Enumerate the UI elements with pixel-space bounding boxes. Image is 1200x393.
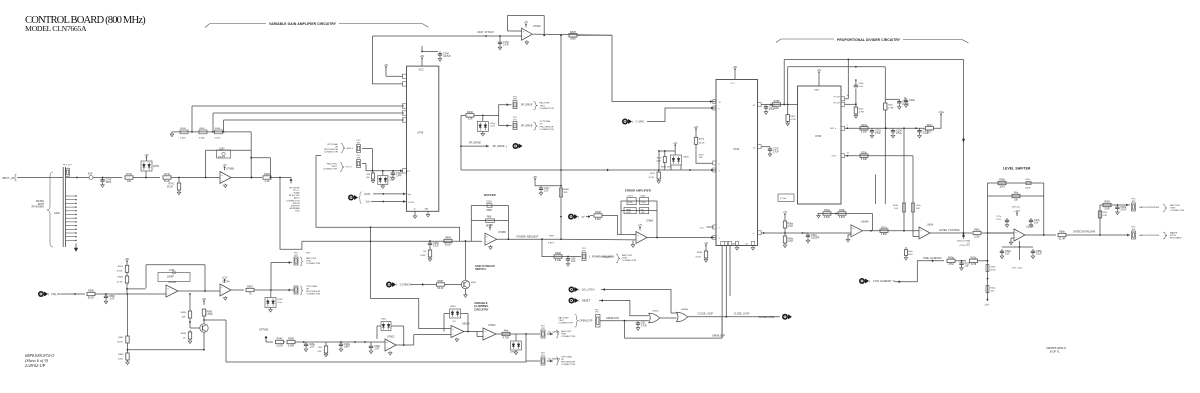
- svg-text:R66: R66: [487, 217, 492, 219]
- svg-text:SW6: SW6: [471, 282, 477, 284]
- svg-text:10UF: 10UF: [1036, 253, 1042, 256]
- svg-text:}: }: [506, 145, 507, 149]
- svg-text:2.80K: 2.80K: [420, 255, 426, 257]
- svg-text:R678: R678: [570, 31, 576, 34]
- svg-text:L70a: L70a: [938, 111, 944, 114]
- svg-text:R09d: R09d: [999, 179, 1005, 182]
- svg-text:R066: R066: [288, 338, 294, 341]
- svg-text:QT03: QT03: [277, 299, 283, 301]
- svg-text:10K: 10K: [564, 192, 568, 194]
- svg-text:ERROR AMPLIFIER: ERROR AMPLIFIER: [625, 189, 651, 193]
- svg-text:+8V: +8V: [733, 66, 738, 69]
- svg-text:R686: R686: [88, 290, 94, 293]
- svg-text:61.4R: 61.4R: [1059, 237, 1066, 240]
- svg-text:GATECONTROLRW: GATECONTROLRW: [1139, 234, 1160, 237]
- svg-text:R677: R677: [650, 173, 656, 175]
- svg-text:R69h: R69h: [991, 267, 997, 269]
- svg-text:+8V: +8V: [533, 176, 538, 179]
- svg-text:E1P: E1P: [88, 174, 93, 176]
- svg-text:}: }: [774, 315, 775, 319]
- svg-text:+4V: +4V: [673, 142, 678, 145]
- svg-text:R698: R698: [181, 312, 187, 314]
- svg-text:R096: R096: [555, 252, 561, 255]
- svg-text:+8V: +8V: [202, 298, 207, 301]
- svg-text:6.81K: 6.81K: [595, 218, 602, 221]
- svg-text:CLOSE_LOOP: CLOSE_LOOP: [734, 313, 750, 315]
- svg-text:1UF: 1UF: [1034, 222, 1039, 225]
- svg-text:27UF: 27UF: [896, 132, 902, 135]
- svg-text:{: {: [579, 299, 580, 303]
- svg-text:{: {: [396, 283, 397, 287]
- svg-text:T-CLR: T-CLR: [408, 202, 415, 204]
- svg-text:(SN+14): (SN+14): [1012, 206, 1020, 208]
- svg-text:10PF: 10PF: [628, 202, 634, 204]
- svg-text:{: {: [48, 292, 49, 296]
- svg-text:5.30K: 5.30K: [861, 131, 868, 134]
- svg-text:OUT a: OUT a: [830, 128, 837, 130]
- svg-text:QP40: QP40: [510, 351, 516, 353]
- svg-text:6.81K: 6.81K: [839, 216, 846, 219]
- svg-text:SD_LATMA: SD_LATMA: [548, 330, 560, 333]
- svg-text:G400: G400: [54, 213, 60, 215]
- svg-text:POWER_REQUEST: POWER_REQUEST: [517, 236, 539, 239]
- svg-text:-2.8V: -2.8V: [984, 305, 990, 307]
- svg-text:3.3UF: 3.3UF: [641, 202, 647, 204]
- svg-text:U708B: U708B: [226, 168, 234, 171]
- svg-text:27UF: 27UF: [996, 219, 1002, 221]
- svg-text:RF_DRIVE: RF_DRIVE: [493, 145, 505, 148]
- svg-text:CONNECTOR: CONNECTOR: [1170, 210, 1184, 212]
- svg-text:R09a: R09a: [824, 209, 830, 212]
- svg-text:R684: R684: [118, 277, 124, 279]
- svg-text:1043: 1043: [999, 185, 1005, 188]
- svg-text:R69e: R69e: [1059, 231, 1065, 234]
- svg-text:CONNECTOR: CONNECTOR: [540, 108, 554, 110]
- svg-text:R687: R687: [438, 280, 444, 283]
- svg-text:.1UF: .1UF: [374, 348, 380, 351]
- svg-text:.1UF: .1UF: [309, 346, 315, 349]
- svg-text:CIRCUITRY: CIRCUITRY: [474, 307, 489, 311]
- svg-text:VT: VT: [582, 216, 586, 219]
- svg-text:+15V (OPT): +15V (OPT): [959, 245, 970, 247]
- svg-text:10K: 10K: [1014, 198, 1019, 201]
- svg-text:RF_DRIVE: RF_DRIVE: [521, 126, 533, 128]
- svg-text:2/28/02-UP: 2/28/02-UP: [25, 363, 46, 368]
- svg-text:4732: 4732: [948, 263, 954, 266]
- svg-text:V38G: V38G: [814, 90, 820, 92]
- svg-text:27UF: 27UF: [1120, 209, 1126, 212]
- svg-text:+7V: +7V: [452, 321, 456, 323]
- svg-text:5.62K: 5.62K: [215, 137, 221, 139]
- svg-text:+8V: +8V: [125, 258, 130, 261]
- svg-text:4.7M: 4.7M: [787, 225, 792, 228]
- svg-text:MODEL CLN7665A: MODEL CLN7665A: [25, 24, 87, 33]
- svg-text:OPTION.: OPTION.: [259, 329, 269, 332]
- svg-text:+7V: +7V: [638, 224, 643, 227]
- svg-text:C20a: C20a: [1025, 179, 1031, 181]
- svg-text:GATECONTROLRW: GATECONTROLRW: [1139, 206, 1160, 209]
- svg-text:10R: 10R: [699, 157, 703, 159]
- svg-text:10K: 10K: [127, 180, 132, 183]
- svg-text:CLK: CLK: [366, 202, 371, 204]
- svg-text:RF BOARD: RF BOARD: [32, 206, 45, 209]
- svg-text:GATECONTROLRW: GATECONTROLRW: [1073, 231, 1096, 234]
- svg-text:602R: 602R: [991, 270, 996, 272]
- svg-text:PROPORTIONAL DIVIDER CIRCUITRY: PROPORTIONAL DIVIDER CIRCUITRY: [837, 38, 901, 42]
- svg-text:4762: 4762: [118, 359, 124, 361]
- svg-text:GND: GND: [732, 244, 737, 246]
- svg-text:.1UF: .1UF: [109, 298, 115, 301]
- svg-text:BUFFER: BUFFER: [484, 193, 497, 197]
- svg-text:CONNECTOR: CONNECTOR: [622, 260, 636, 262]
- svg-text:R69g: R69g: [948, 256, 954, 259]
- svg-text:56.2K: 56.2K: [164, 180, 171, 183]
- svg-text:+8V: +8V: [694, 126, 699, 129]
- svg-text:B OF 7L: B OF 7L: [1050, 349, 1060, 353]
- svg-text:R62a: R62a: [971, 256, 977, 259]
- svg-text:33PF: 33PF: [344, 346, 350, 349]
- svg-text:CONNECTOR: CONNECTOR: [559, 323, 573, 325]
- svg-text:CONNECTOR: CONNECTOR: [324, 151, 338, 153]
- svg-text:U808A: U808A: [681, 308, 688, 311]
- svg-text:R04a: R04a: [893, 205, 899, 207]
- svg-text:R695: R695: [118, 354, 124, 356]
- svg-text:5.04K: 5.04K: [555, 259, 562, 262]
- svg-text:{: {: [632, 120, 633, 124]
- svg-text:10K: 10K: [991, 291, 995, 293]
- svg-text:6.81K: 6.81K: [117, 271, 123, 273]
- svg-text:FACTORY: FACTORY: [540, 102, 551, 105]
- svg-text:27UF: 27UF: [769, 108, 775, 111]
- svg-text:1d: 1d: [847, 153, 849, 155]
- svg-text:LT68A: LT68A: [646, 220, 654, 223]
- svg-text:56.2K: 56.2K: [437, 287, 444, 290]
- svg-text:40K: 40K: [182, 317, 186, 319]
- svg-text:+10a: +10a: [277, 302, 283, 304]
- svg-text:+10V: +10V: [487, 224, 493, 227]
- svg-text:R4a: R4a: [504, 330, 509, 333]
- svg-text:56.2K: 56.2K: [167, 186, 173, 188]
- svg-text:R166: R166: [215, 128, 221, 130]
- svg-text:R09b: R09b: [839, 209, 845, 212]
- svg-text:STATION: STATION: [291, 204, 300, 207]
- svg-text:{: {: [578, 215, 579, 219]
- svg-text:56PF: 56PF: [487, 210, 493, 212]
- svg-text:OUT: OUT: [832, 156, 837, 158]
- svg-text:U064A: U064A: [861, 221, 869, 224]
- svg-text:.1UF: .1UF: [859, 86, 864, 88]
- svg-text:U703: U703: [815, 134, 822, 138]
- svg-text:56.1K: 56.1K: [649, 177, 655, 179]
- svg-text:33PF: 33PF: [106, 181, 112, 184]
- svg-text:SD_LATCH: SD_LATCH: [582, 289, 595, 292]
- svg-text:FAST_ATTACK: FAST_ATTACK: [478, 31, 495, 34]
- svg-text:POT 2: POT 2: [346, 167, 353, 169]
- svg-text:TEST: TEST: [540, 105, 546, 107]
- svg-text:N.C.: N.C.: [700, 228, 705, 230]
- svg-text:4.75K: 4.75K: [503, 336, 510, 339]
- svg-text:SWITCH: SWITCH: [475, 267, 486, 271]
- svg-text:INPUT_UF: INPUT_UF: [2, 177, 15, 180]
- svg-text:C58a: C58a: [859, 83, 865, 85]
- svg-text:AT A-TYPE: AT A-TYPE: [289, 194, 300, 197]
- svg-text:U60A: U60A: [927, 223, 934, 226]
- svg-text:CR40: CR40: [450, 306, 456, 308]
- svg-text:+10V: +10V: [490, 126, 496, 128]
- svg-text:4.7M: 4.7M: [787, 240, 792, 243]
- svg-text:R206: R206: [699, 139, 705, 141]
- svg-text:{: {: [579, 288, 580, 292]
- svg-text:U708R: U708R: [498, 231, 506, 234]
- svg-text:OPENLOOP: OPENLOOP: [606, 318, 619, 320]
- svg-text:5.62K: 5.62K: [180, 137, 186, 139]
- svg-text:6.87%: 6.87%: [548, 243, 554, 245]
- svg-text:.047UF: .047UF: [443, 55, 451, 58]
- svg-text:3.2K: 3.2K: [317, 351, 322, 353]
- svg-text:5(a): 5(a): [408, 194, 412, 196]
- svg-text:C746: C746: [169, 270, 175, 272]
- svg-text:R20a: R20a: [861, 124, 867, 127]
- svg-text:27UF: 27UF: [433, 245, 439, 248]
- svg-text:+5V: +5V: [144, 154, 149, 157]
- svg-text:R667: R667: [247, 286, 253, 289]
- svg-text:R20b: R20b: [861, 151, 867, 154]
- svg-text:47.5K: 47.5K: [117, 281, 123, 283]
- svg-text:CONNECTOR: CONNECTOR: [323, 168, 337, 170]
- svg-text:U130C: U130C: [652, 310, 659, 312]
- svg-text:4.79K: 4.79K: [790, 119, 796, 121]
- svg-text:CONNECTOR: CONNECTOR: [306, 263, 320, 265]
- svg-text:CONNECTOR: CONNECTOR: [540, 129, 554, 131]
- svg-text:HOT: HOT: [306, 252, 311, 254]
- svg-text:DATA: DATA: [365, 193, 371, 196]
- svg-text:PIN): PIN): [295, 210, 299, 212]
- svg-text:R20c: R20c: [927, 124, 933, 127]
- svg-text:122K: 122K: [974, 235, 980, 238]
- svg-text:540K: 540K: [656, 161, 661, 163]
- svg-text:27UF: 27UF: [503, 44, 509, 47]
- svg-text:R688: R688: [564, 189, 570, 191]
- svg-text:5.6R: 5.6R: [1104, 207, 1109, 210]
- svg-text:4.79B: 4.79B: [888, 108, 894, 110]
- svg-text:100PF: 100PF: [167, 277, 174, 279]
- svg-text:CONNECTOR: CONNECTOR: [561, 364, 575, 366]
- svg-text:ANTENNA: ANTENNA: [290, 207, 301, 210]
- svg-text:R6a: R6a: [1014, 192, 1019, 195]
- svg-text:+6V: +6V: [384, 64, 389, 67]
- svg-text:C20a: C20a: [909, 99, 915, 102]
- svg-text:+12V: +12V: [222, 277, 228, 280]
- svg-text:P OUT: P OUT: [834, 97, 841, 99]
- svg-text:TX/M_GATEORV: TX/M_GATEORV: [873, 280, 892, 283]
- svg-text:R224: R224: [118, 266, 124, 268]
- svg-text:R69c: R69c: [974, 229, 980, 232]
- svg-text:6.81K: 6.81K: [881, 233, 888, 236]
- svg-text:RF_DRIVE: RF_DRIVE: [521, 105, 533, 107]
- svg-text:CW/OPS 4000-O: CW/OPS 4000-O: [1046, 346, 1066, 350]
- svg-text:CSQ_BAL: CSQ_BAL: [51, 293, 63, 296]
- svg-text:4738: 4738: [971, 263, 977, 266]
- svg-text:24UF: 24UF: [1025, 187, 1031, 189]
- svg-text:R007: R007: [790, 116, 796, 118]
- svg-text:R640: R640: [467, 111, 473, 114]
- svg-text:+14V: +14V: [1014, 210, 1020, 213]
- svg-text:R09f: R09f: [1103, 212, 1108, 214]
- svg-text:3.4K: 3.4K: [265, 180, 270, 183]
- svg-text:R689: R689: [697, 252, 703, 254]
- svg-text:FACTORY: FACTORY: [559, 317, 570, 320]
- svg-text:3.2K: 3.2K: [468, 118, 473, 121]
- svg-text:C218: C218: [486, 202, 492, 204]
- svg-text:L4G: L4G: [389, 180, 393, 182]
- svg-text:U745: U745: [417, 131, 424, 135]
- svg-text:5.30K: 5.30K: [861, 158, 868, 161]
- svg-text:U7602: U7602: [387, 335, 395, 338]
- svg-text:C_NRG: C_NRG: [636, 121, 645, 124]
- svg-text:P_REQUEST: P_REQUEST: [601, 257, 615, 259]
- svg-text:R697: R697: [118, 337, 124, 339]
- svg-text:R075: R075: [699, 155, 705, 157]
- svg-text:1UF: 1UF: [1005, 253, 1010, 256]
- svg-text:VARIABLE GAIN AMPLIFIER CIRCUI: VARIABLE GAIN AMPLIFIER CIRCUITRY: [269, 22, 337, 26]
- svg-text:P C/4a: P C/4a: [780, 198, 787, 200]
- svg-text:+7V: +7V: [222, 164, 227, 167]
- svg-text:R07a: R07a: [881, 226, 887, 229]
- svg-text:1UF: 1UF: [965, 264, 970, 267]
- svg-text:FILT +14V: FILT +14V: [1012, 268, 1023, 270]
- svg-text:U7602: U7602: [488, 324, 496, 327]
- svg-text:56.2K: 56.2K: [696, 257, 702, 259]
- svg-text:R69f: R69f: [1104, 201, 1109, 204]
- svg-text:3.32R: 3.32R: [276, 344, 283, 347]
- svg-text:R208: R208: [774, 100, 780, 103]
- svg-text:ANLC: ANLC: [294, 197, 300, 200]
- svg-text:5.3R: 5.3R: [1103, 215, 1108, 217]
- svg-text:C406: C406: [640, 195, 646, 197]
- svg-text:AUX 4: AUX 4: [347, 147, 354, 150]
- svg-text:P/O: P/O: [63, 164, 67, 166]
- svg-text:+8V: +8V: [420, 55, 425, 58]
- svg-text:GATES_CONTROL: GATES_CONTROL: [939, 229, 961, 232]
- svg-text:R046: R046: [277, 338, 283, 341]
- svg-text:CR11: CR11: [381, 319, 387, 321]
- svg-text:27UF: 27UF: [641, 324, 647, 327]
- svg-text:RF BOARD: RF BOARD: [1170, 237, 1182, 240]
- svg-text:R266: R266: [264, 173, 270, 176]
- svg-text:CONNECTOR: CONNECTOR: [306, 294, 320, 296]
- svg-text:182K: 182K: [570, 38, 576, 41]
- svg-text:CUTBACK: CUTBACK: [400, 284, 412, 287]
- svg-text:N OUT: N OUT: [834, 102, 841, 104]
- svg-text:R741: R741: [169, 184, 175, 186]
- svg-text:FLAW: FLAW: [294, 192, 300, 195]
- svg-text:RF_DRIVE: RF_DRIVE: [469, 141, 481, 144]
- svg-text:60.2K: 60.2K: [699, 143, 705, 145]
- svg-text:5.62K: 5.62K: [199, 137, 205, 139]
- svg-text:60.2K: 60.2K: [117, 342, 123, 344]
- svg-text:F09T: F09T: [549, 236, 555, 238]
- svg-text:TIME_GATEORV: TIME_GATEORV: [923, 257, 942, 260]
- svg-text:QT06: QT06: [153, 165, 160, 168]
- svg-text:27UF: 27UF: [773, 150, 779, 153]
- svg-text:}: }: [589, 255, 590, 259]
- svg-text:C247: C247: [219, 148, 225, 150]
- svg-text:U702: U702: [733, 147, 740, 151]
- svg-text:C213: C213: [628, 195, 634, 197]
- svg-text:LEVEL SHIFTER: LEVEL SHIFTER: [1003, 167, 1031, 171]
- svg-text:10K: 10K: [774, 107, 779, 110]
- svg-text:+7V: +7V: [783, 211, 788, 214]
- svg-text:C10a: C10a: [916, 205, 922, 207]
- svg-text:RESET: RESET: [582, 300, 591, 303]
- svg-text:U707A: U707A: [222, 280, 230, 283]
- svg-text:1UF: 1UF: [571, 260, 576, 263]
- svg-text:{: {: [869, 279, 870, 283]
- svg-text:UP: UP: [540, 124, 544, 126]
- svg-text:PROCESSOR: PROCESSOR: [540, 126, 554, 128]
- svg-text:CLOSE_LOOP: CLOSE_LOOP: [698, 313, 714, 315]
- svg-text:1000PF: 1000PF: [811, 237, 820, 240]
- svg-text:VCC: VCC: [419, 68, 424, 71]
- svg-text:R098: R098: [595, 211, 601, 214]
- svg-text:56.1K: 56.1K: [88, 296, 95, 299]
- svg-text:OPENLOOP: OPENLOOP: [580, 321, 593, 323]
- svg-text:U705A: U705A: [533, 25, 541, 28]
- svg-text:CONNECTOR: CONNECTOR: [561, 336, 575, 338]
- svg-text:R07a: R07a: [859, 109, 865, 111]
- svg-text:U802A: U802A: [462, 322, 470, 325]
- svg-text:1.82K: 1.82K: [206, 313, 213, 316]
- svg-text:1000PF: 1000PF: [218, 156, 226, 158]
- svg-text:4.79K: 4.79K: [859, 112, 865, 114]
- svg-text:6.81K: 6.81K: [824, 216, 831, 219]
- svg-text:SD_MATMA: SD_MATMA: [548, 357, 561, 360]
- svg-text:R740: R740: [126, 173, 132, 176]
- svg-text:CLOSE LOOP: CLOSE LOOP: [759, 316, 775, 319]
- svg-text:27PF: 27PF: [396, 174, 402, 177]
- svg-text:5.36R: 5.36R: [288, 344, 295, 347]
- svg-text:QR40: QR40: [683, 157, 689, 159]
- svg-text:1UF: 1UF: [544, 189, 549, 192]
- svg-text:+4V: +4V: [704, 242, 709, 245]
- svg-text:102R: 102R: [626, 212, 631, 214]
- svg-text:R04a: R04a: [991, 288, 997, 290]
- svg-text:N/C: N/C: [927, 131, 931, 134]
- svg-text:50.2K: 50.2K: [445, 243, 452, 246]
- svg-text:27UF: 27UF: [875, 132, 881, 135]
- svg-text:+CC: +CC: [730, 83, 735, 85]
- svg-text:R40a: R40a: [888, 105, 894, 107]
- svg-text:OPTIONAL: OPTIONAL: [540, 120, 552, 123]
- svg-text:R168: R168: [181, 128, 187, 130]
- svg-text:R744: R744: [164, 173, 170, 176]
- svg-text:+7V: +7V: [524, 21, 529, 24]
- svg-text:+7V: +7V: [817, 69, 822, 72]
- svg-text:R076 10K: R076 10K: [661, 166, 671, 168]
- svg-text:R694: R694: [445, 237, 451, 240]
- svg-text:R465: R465: [200, 128, 206, 130]
- svg-text:R699: R699: [181, 333, 187, 335]
- svg-text:OPENLOOP: OPENLOOP: [712, 336, 725, 338]
